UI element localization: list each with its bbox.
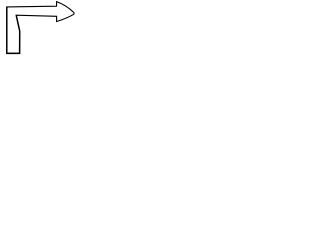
bent arrow outline (fill + thin stroke for bar and head) xyxy=(7,2,74,54)
thicker stem edges: left side, bottom, right slant xyxy=(7,7,20,54)
